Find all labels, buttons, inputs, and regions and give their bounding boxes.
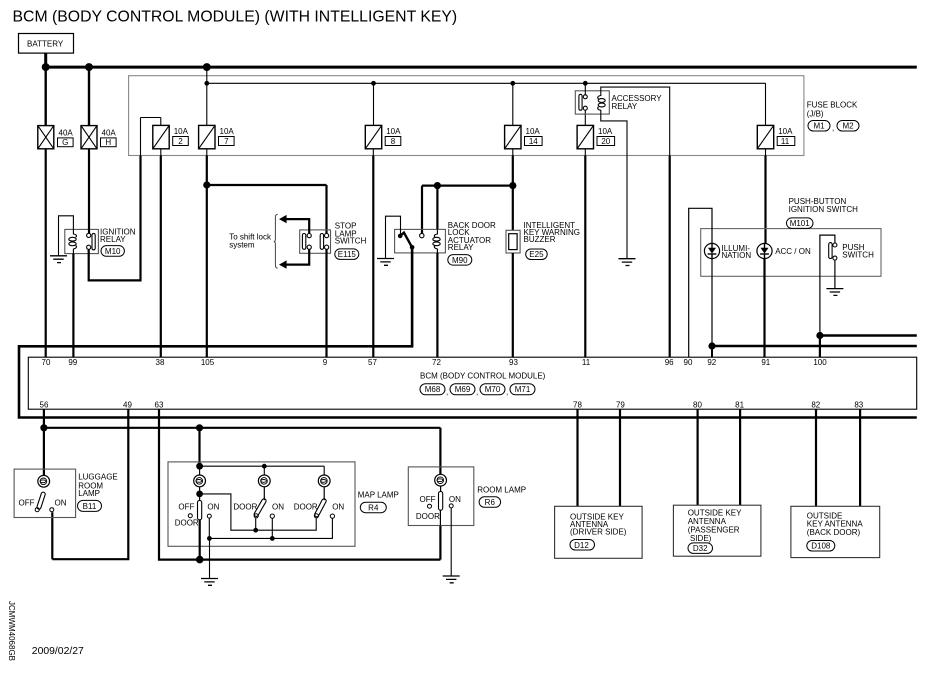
svg-text:ACC / ON: ACC / ON [775,247,811,256]
wire back door relay coil to pin 72 [436,253,438,357]
wire pin 79 antenna [619,409,621,506]
lamp ACC/ON LED [757,243,811,258]
fuse 11 10A [757,125,795,148]
wire pin 56 to lamps bus [43,409,45,428]
svg-text:B11: B11 [83,502,97,511]
svg-text:,: , [506,388,508,397]
wire fuse2 to pin 38 [160,149,162,156]
svg-text:R4: R4 [368,503,379,512]
svg-text:OFF: OFF [420,495,436,504]
svg-text:(DRIVER SIDE): (DRIVER SIDE) [570,527,627,536]
wire room lamp common down [439,510,441,525]
svg-text:M71: M71 [515,385,531,394]
svg-text:M101: M101 [790,219,811,228]
node map bulb1 top [196,463,203,470]
wire lamp feed bus [44,428,441,475]
fuse 20 10A [577,110,615,149]
svg-text:RELAY: RELAY [100,235,126,244]
svg-text:20: 20 [601,137,610,146]
svg-text:JCMWM4068GB: JCMWM4068GB [7,601,16,661]
wire fuse14 down [512,149,514,156]
svg-text:82: 82 [811,401,820,410]
wire back door relay bus [422,186,513,234]
svg-text:79: 79 [616,401,625,410]
wire ACC LED to pin 91 [763,259,765,358]
wire fuse2 feed inside J/B [140,118,142,156]
wire pin 81 antenna [739,409,741,505]
svg-text:57: 57 [368,358,377,367]
lamp map bulb 2 [258,475,270,487]
svg-text:83: 83 [854,401,863,410]
wire stop lamp top arrow to shift lock [286,219,309,233]
wire push switch to pin 100 [820,235,835,335]
node pin 100 junction [816,332,823,339]
wire fuse20 to pin 11 [584,149,586,156]
svg-text:81: 81 [735,401,744,410]
svg-text:DOOR: DOOR [175,519,199,528]
svg-text:11: 11 [582,358,591,367]
svg-text:DOOR: DOOR [416,512,440,521]
svg-text:RELAY: RELAY [612,102,638,111]
svg-text:ON: ON [207,503,219,512]
svg-text:IGNITION SWITCH: IGNITION SWITCH [789,205,859,214]
push-button ignition switch M101 [701,197,881,276]
wire 40A H to ignition relay contact [88,149,90,234]
svg-text:92: 92 [707,358,716,367]
svg-text:ON: ON [55,498,67,507]
wire pin 100 stub [819,336,821,358]
BCM pin numbers bottom row [40,401,864,410]
svg-text:DOOR: DOOR [294,503,318,512]
node map door bus [253,528,258,533]
svg-text:56: 56 [40,401,49,410]
wire battery main bus [46,53,917,67]
label to shift lock system with brace [229,214,278,268]
wire ignition relay coil to pin 99 [72,254,74,358]
wire inner J/B bus [207,67,766,125]
node pin 92 junction [708,342,715,349]
wire illumination to pin 92 and right [711,259,713,346]
luggage room lamp B11 [14,469,118,517]
node inner bus tap fuse 7 [204,81,209,86]
svg-text:E115: E115 [338,250,357,259]
fuse 2 10A [141,118,189,149]
svg-text:M1: M1 [813,122,825,131]
wire pin 82 antenna [815,409,817,506]
svg-text:D108: D108 [811,542,831,551]
svg-text:ON: ON [449,495,461,504]
wire stop lamp switch to pin 9 [325,249,327,357]
map switch 3 lever [294,487,345,518]
wire ignition relay contact to fuse 2 [89,156,141,281]
outside key antenna passenger side D32 [673,505,761,556]
svg-text:80: 80 [693,401,702,410]
fuse block (J/B) outline [129,76,804,156]
wire map ON bus to ground [209,518,332,578]
stop lamp switch E115 [300,222,367,260]
map switch 2 lever [233,487,284,518]
wire accessory relay coil bottom to ground [601,114,627,259]
wire pin 63 to room/map common [159,409,440,559]
svg-text:105: 105 [201,358,215,367]
wire map DOOR link bus [200,494,317,530]
wire fuse8 to pin 57 [372,149,374,156]
svg-text:100: 100 [813,358,827,367]
outside key antenna driver side D12 [555,506,643,558]
svg-text:11: 11 [781,137,790,146]
node map lamp common junction [196,556,204,564]
wire room lamp ON to ground [450,508,452,576]
svg-text:78: 78 [573,401,582,410]
svg-text:D12: D12 [574,541,589,550]
ground ignition relay [50,256,67,263]
wire to next page at 346 [712,345,917,348]
node inner bus tap fuse 14 [510,81,515,86]
svg-text:10A: 10A [386,127,401,136]
svg-text:8: 8 [391,137,396,146]
svg-text:G: G [62,138,68,147]
svg-text:D32: D32 [693,544,708,553]
lamp map bulb 1 [194,475,206,487]
back door lock actuator relay M90 [395,221,496,265]
svg-text:M69: M69 [455,385,471,394]
fusible link H 40A [81,67,116,149]
map switch 1 lever [175,494,220,528]
svg-text:10A: 10A [778,127,793,136]
wire map lamp feed [198,428,200,466]
node map bulb2 top [262,464,267,469]
svg-text:DOOR: DOOR [233,503,257,512]
svg-text:40A: 40A [59,129,74,138]
node map ON bus corner [207,536,212,541]
svg-text:M10: M10 [105,247,121,256]
wire ignition relay coil to ground [59,216,74,256]
wire accessory relay coil top to pin 96 [601,87,670,155]
node back door relay coil junction [434,182,441,189]
svg-text:M70: M70 [485,385,501,394]
svg-text:OFF: OFF [19,498,35,507]
node A stop lamp branch [203,181,210,188]
ground back door relay [377,259,394,266]
wire back door relay output to lamps [19,247,917,417]
svg-text:SWITCH: SWITCH [335,237,367,246]
svg-text:40A: 40A [102,129,117,138]
ignition relay M10 [65,227,136,256]
node map ON bus switch2 [270,536,275,541]
room lamp R6 [408,467,526,526]
intelligent key warning buzzer E25 [506,221,580,259]
accessory relay U [575,85,662,114]
wire pin 78 antenna [576,409,578,506]
wire illumination to pin 90 [689,208,712,357]
BCM box [28,357,916,409]
svg-text:BUZZER: BUZZER [524,235,556,244]
ground push switch [826,289,843,296]
svg-text:,: , [446,388,448,397]
svg-text:BCM (BODY CONTROL MODULE): BCM (BODY CONTROL MODULE) [420,371,546,380]
svg-text:OFF: OFF [178,503,194,512]
svg-text:63: 63 [155,401,164,410]
svg-text:10A: 10A [526,127,541,136]
svg-text:ROOM LAMP: ROOM LAMP [477,485,526,494]
svg-text:38: 38 [156,358,165,367]
svg-text:FUSE BLOCK: FUSE BLOCK [807,101,858,110]
svg-text:96: 96 [665,358,674,367]
svg-text:90: 90 [684,358,693,367]
svg-text:system: system [229,240,255,249]
svg-text:49: 49 [123,401,132,410]
svg-text:H: H [105,138,111,147]
wire back door relay coil feed [436,186,438,230]
svg-text:14: 14 [529,137,538,146]
label BCM (BODY CONTROL MODULE) [420,371,546,396]
svg-text:M68: M68 [425,385,441,394]
node map bulb1 bottom [199,487,201,494]
svg-text:10A: 10A [598,127,613,136]
battery B+ [19,34,74,54]
svg-text:ON: ON [332,503,344,512]
svg-text:9: 9 [323,358,328,367]
label FUSE BLOCK (J/B) M1 M2 [807,101,859,133]
lamp map bulb 3 [318,475,330,487]
ground room lamp [443,576,460,583]
fuse 14 10A [505,83,542,149]
svg-text:91: 91 [761,358,770,367]
svg-text:SWITCH: SWITCH [842,251,874,260]
map lamp R4 [168,462,399,546]
svg-text:,: , [476,388,478,397]
node map lamp feed junction [196,424,203,431]
svg-text:E25: E25 [529,250,544,259]
wire fuse11 to ACC LED [765,149,767,156]
svg-text:MAP LAMP: MAP LAMP [358,491,399,500]
svg-text:RELAY: RELAY [448,243,474,252]
svg-text:93: 93 [509,358,518,367]
node fuse block feed junction [203,63,211,71]
svg-text:(BACK DOOR): (BACK DOOR) [807,528,861,537]
svg-text:NATION: NATION [722,251,752,260]
wire buzzer to pin 93 [512,253,514,357]
node inner bus tap fuse 8 [371,81,376,86]
wire pin 80 antenna [696,409,698,505]
svg-text:BATTERY: BATTERY [27,40,64,49]
push switch contact [829,243,874,261]
svg-text:LUGGAGE: LUGGAGE [78,473,118,482]
svg-text:BCM (BODY CONTROL MODULE) (WIT: BCM (BODY CONTROL MODULE) (WITH INTELLIG… [13,9,458,26]
wire stop lamp bottom arrow to shift lock [286,249,309,264]
BCM pin numbers top row [42,358,828,367]
wire map lever common down [199,520,201,560]
svg-text:LAMP: LAMP [78,489,100,498]
svg-text:R6: R6 [485,498,496,507]
wire accessory relay to pin 96 [669,156,671,358]
wire 40A G to pin 70 [45,149,47,357]
svg-text:,: , [832,124,834,133]
node inner bus tap accessory relay [583,81,588,86]
svg-text:72: 72 [432,358,441,367]
fuse 7 10A [199,83,235,149]
wire push switch to ground [834,260,836,289]
svg-text:10A: 10A [174,127,189,136]
wire luggage lamp feed [43,428,45,475]
fusible link G 40A [38,67,74,149]
ground map lamp [201,579,218,586]
outside key antenna back door D108 [791,506,880,557]
fuse 8 10A [365,83,401,149]
svg-text:2009/02/27: 2009/02/27 [32,646,84,657]
node battery junction G [42,63,50,71]
wire node A to pin 105 [206,185,208,357]
svg-text:99: 99 [68,358,77,367]
wire node A to stop lamp switch [207,185,327,234]
svg-text:M90: M90 [452,256,468,265]
wire pin 92 stub [711,346,713,357]
wire buzzer feed [512,186,514,231]
node battery junction H [85,63,93,71]
svg-text:M2: M2 [842,122,854,131]
svg-text:70: 70 [42,358,51,367]
node fuse14 buzzer junction [509,182,516,189]
svg-text:(J/B): (J/B) [807,110,824,119]
svg-text:7: 7 [224,137,229,146]
ground accessory relay [619,259,636,266]
wire pin 83 antenna [859,409,861,506]
wire fuse7 to node A [206,149,208,156]
svg-text:SIDE): SIDE) [690,534,712,543]
wire pin 49 to luggage lamp [52,409,128,559]
svg-text:2: 2 [178,137,183,146]
wire map lamp top bus [200,466,325,475]
svg-text:ON: ON [272,503,284,512]
wire back door relay pivot to ground [386,216,401,258]
wire to next page at 335 [820,334,917,337]
svg-text:10A: 10A [220,127,235,136]
lamp illumination LED [704,243,751,260]
node pin 56 junction [40,424,47,431]
